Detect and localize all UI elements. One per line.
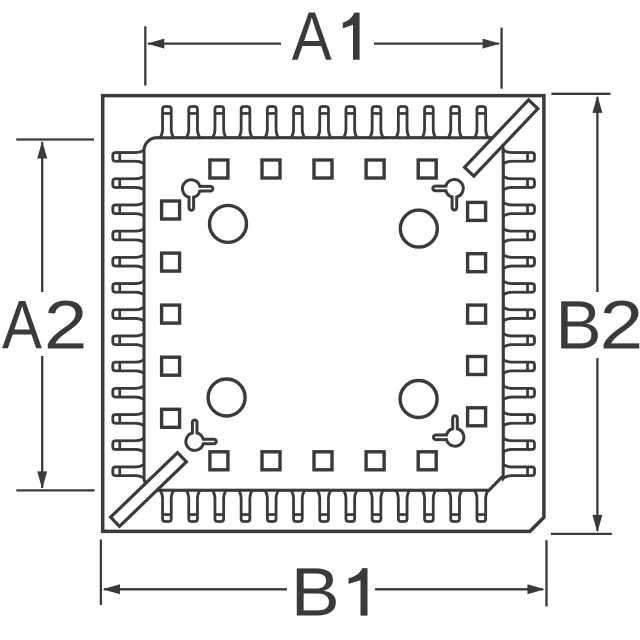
bottom-left mounting hole circle — [208, 379, 245, 416]
left contact pin 2 — [113, 176, 144, 190]
top row square contact 4 — [366, 160, 384, 178]
bottom-left corner polarising bar — [111, 453, 187, 527]
top contact pin 13 — [474, 107, 488, 138]
bottom contact pin 4 — [238, 490, 252, 521]
B1 extension line left — [100, 540, 102, 606]
bottom row square contact 5 — [418, 452, 436, 470]
left contact pin 1 — [113, 150, 144, 164]
left contact pin 13 — [113, 464, 144, 478]
right contact pin 13 — [503, 464, 534, 478]
right contact pin 6 — [503, 281, 534, 295]
A1 dimension line right segment — [374, 42, 499, 44]
left contact pin 9 — [113, 359, 144, 373]
top contact pin 1 — [160, 107, 174, 138]
top contact pin 8 — [343, 107, 357, 138]
right contact pin 5 — [503, 255, 534, 269]
bottom contact pin 1 — [160, 490, 174, 521]
bottom contact pin 6 — [291, 490, 305, 521]
top contact pin 12 — [448, 107, 462, 138]
left column square contact 4 — [162, 357, 180, 375]
right column square contact 4 — [468, 357, 486, 375]
A1 dimension line left segment — [148, 42, 281, 44]
right contact pin 8 — [503, 333, 534, 347]
bottom contact pin 12 — [448, 490, 462, 521]
svg-text:2: 2 — [600, 287, 640, 364]
top contact pin 2 — [186, 107, 200, 138]
A2 dimension line bottom segment — [41, 356, 43, 488]
left contact pin 10 — [113, 386, 144, 400]
bottom contact pin 10 — [396, 490, 410, 521]
top contact pin 6 — [291, 107, 305, 138]
B2 extension line bottom — [551, 533, 612, 535]
svg-text:B: B — [556, 287, 602, 364]
right contact pin 2 — [503, 176, 534, 190]
bottom contact pin 9 — [369, 490, 383, 521]
top row square contact 2 — [262, 160, 280, 178]
A2 arrowhead top — [37, 141, 47, 159]
left contact pin 7 — [113, 307, 144, 321]
right column square contact 5 — [468, 408, 486, 426]
right contact pin 12 — [503, 438, 534, 452]
top contact pin 5 — [265, 107, 279, 138]
right contact pin 3 — [503, 202, 534, 216]
right contact pin 7 — [503, 307, 534, 321]
right contact pin 9 — [503, 359, 534, 373]
left column square contact 1 — [162, 201, 180, 219]
left column square contact 2 — [162, 253, 180, 271]
top-right keying post — [433, 180, 463, 210]
inner socket body outline — [144, 138, 503, 491]
A1 arrowhead right — [483, 39, 501, 49]
bottom contact pin 11 — [422, 490, 436, 521]
bottom-right mounting hole circle — [400, 381, 437, 418]
right column square contact 1 — [468, 202, 486, 220]
A2 arrowhead bottom — [37, 471, 47, 489]
bottom row square contact 1 — [210, 452, 228, 470]
bottom contact pin 3 — [212, 490, 226, 521]
top-left mounting hole circle — [210, 205, 247, 242]
A1 arrowhead left — [147, 39, 165, 49]
right column square contact 2 — [468, 254, 486, 272]
top contact pin 7 — [317, 107, 331, 138]
left contact pin 8 — [113, 333, 144, 347]
A1 extension line left — [144, 26, 146, 85]
outer package outline with chamfered corner — [103, 96, 544, 532]
bottom contact pin 7 — [317, 490, 331, 521]
top row square contact 5 — [418, 160, 436, 178]
svg-text:A: A — [292, 0, 332, 75]
bottom contact pin 8 — [343, 490, 357, 521]
B1 arrowhead left — [103, 584, 121, 594]
left contact pin 6 — [113, 281, 144, 295]
top row square contact 3 — [314, 160, 332, 178]
left contact pin 11 — [113, 412, 144, 426]
B1 extension line right — [545, 540, 547, 606]
right contact pin 11 — [503, 412, 534, 426]
svg-text:B: B — [291, 554, 340, 631]
A2 extension line top — [16, 138, 94, 140]
top contact pin 11 — [422, 107, 436, 138]
A1 extension line right — [500, 28, 502, 89]
B1 dimension line right segment — [375, 588, 543, 590]
B2 extension line top — [551, 93, 610, 95]
A2 extension line bottom — [16, 489, 94, 491]
top-right mounting hole circle — [400, 210, 437, 247]
top-left keying post — [182, 180, 212, 210]
bottom-left keying post — [186, 420, 216, 450]
bottom-right keying post — [433, 416, 463, 446]
top contact pin 4 — [238, 107, 252, 138]
svg-text:2: 2 — [44, 287, 88, 364]
B2 dimension line top segment — [596, 97, 598, 292]
top contact pin 3 — [212, 107, 226, 138]
left contact pin 4 — [113, 228, 144, 242]
left column square contact 3 — [162, 305, 180, 323]
right contact pin 1 — [503, 150, 534, 164]
right contact pin 4 — [503, 228, 534, 242]
left contact pin 5 — [113, 255, 144, 269]
B2 arrowhead bottom — [592, 515, 602, 533]
top-right corner polarising bar — [465, 100, 538, 176]
bottom contact pin 13 — [474, 490, 488, 521]
right column square contact 3 — [468, 305, 486, 323]
bottom contact pin 5 — [265, 490, 279, 521]
B2 arrowhead top — [592, 95, 602, 113]
B1 dimension line left segment — [104, 588, 287, 590]
B1 arrowhead right — [527, 584, 545, 594]
left contact pin 3 — [113, 202, 144, 216]
B2 dimension line bottom segment — [596, 358, 598, 531]
left contact pin 12 — [113, 438, 144, 452]
bottom row square contact 4 — [366, 452, 384, 470]
top contact pin 10 — [396, 107, 410, 138]
top contact pin 9 — [369, 107, 383, 138]
bottom row square contact 3 — [314, 452, 332, 470]
svg-text:A: A — [2, 287, 42, 364]
left column square contact 5 — [162, 409, 180, 427]
bottom contact pin 2 — [186, 490, 200, 521]
A2 dimension line top segment — [41, 142, 43, 292]
top row square contact 1 — [210, 160, 228, 178]
right contact pin 10 — [503, 386, 534, 400]
bottom row square contact 2 — [262, 452, 280, 470]
